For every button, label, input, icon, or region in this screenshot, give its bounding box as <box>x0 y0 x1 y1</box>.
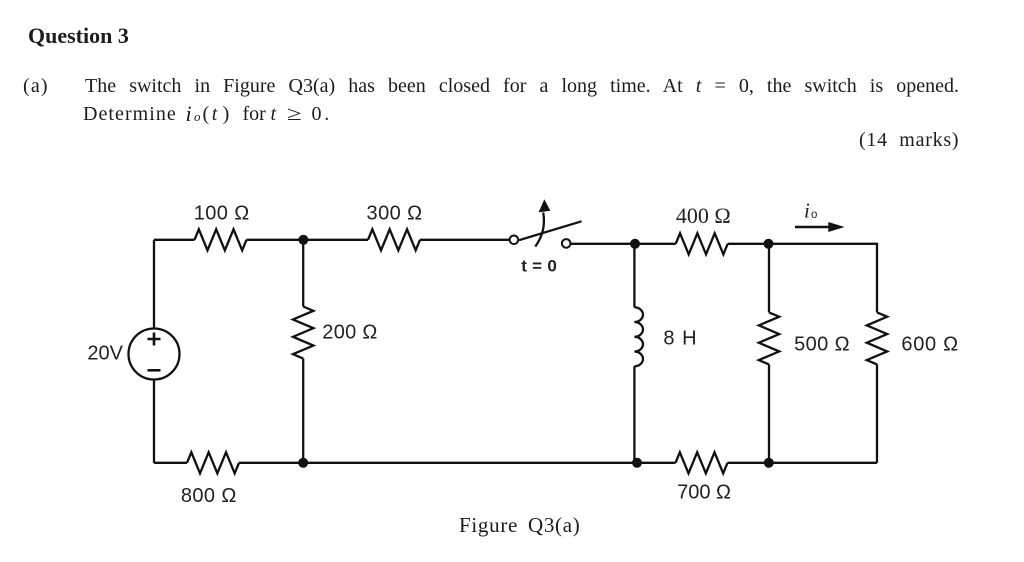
switch right contact circle <box>562 239 571 248</box>
bottom wire left segment from corner to 800-ohm <box>154 462 187 464</box>
svg-text:300 Ω: 300 Ω <box>367 203 423 225</box>
wire from source bottom to bottom-left corner <box>153 380 155 463</box>
paragraph line 2 <box>83 103 177 126</box>
switch blade <box>519 221 582 240</box>
source minus sign <box>148 369 161 372</box>
junction node B dot <box>630 239 640 249</box>
wire from switch right contact to node B <box>571 243 634 245</box>
wire inductor bottom to bottom wire <box>633 366 635 463</box>
wire node A down to 200-ohm <box>302 240 304 307</box>
junction node C dot <box>764 239 774 249</box>
voltage source V1 circle <box>129 329 180 380</box>
current arrowhead <box>828 222 844 232</box>
junction bottom node D dot <box>632 458 642 468</box>
resistor R3 400 ohm <box>676 233 728 254</box>
svg-text:500 Ω: 500 Ω <box>794 334 850 356</box>
resistor R4 200 ohm vertical <box>293 307 313 359</box>
svg-text:8 H: 8 H <box>663 327 696 349</box>
wire node C to top-right corner and down right branch <box>728 244 877 313</box>
wire top-left horizontal from source corner to 100-ohm <box>154 239 195 241</box>
figure caption Figure Q3(a) <box>459 513 580 538</box>
switch left contact circle <box>510 236 519 245</box>
svg-text:o: o <box>811 209 817 221</box>
bottom wire node D to 700-ohm <box>637 462 676 464</box>
svg-text:100 Ω: 100 Ω <box>194 202 250 224</box>
paragraph line 1 <box>85 75 959 98</box>
junction bottom node under 200-ohm dot <box>298 458 308 468</box>
svg-text:400 Ω: 400 Ω <box>676 203 731 228</box>
left branch wire from top corner down to source <box>153 240 155 329</box>
wire node B to 400-ohm <box>635 243 676 245</box>
resistor R1 100 ohm <box>195 229 247 250</box>
resistor R6 600 ohm vertical <box>867 312 887 364</box>
wire 600-ohm bottom to bottom-right corner <box>876 364 878 462</box>
wire from 300-ohm to switch left contact <box>420 239 510 241</box>
wire inductor branch top <box>633 244 635 307</box>
svg-text:i: i <box>804 198 810 222</box>
heading "Question 3" <box>28 23 129 49</box>
resistor R7 800 ohm <box>187 452 239 473</box>
wire 500-ohm bottom <box>768 364 770 462</box>
resistor R5 500 ohm vertical <box>759 312 779 364</box>
inductor L1 8H <box>634 307 643 366</box>
svg-text:800 Ω: 800 Ω <box>181 485 237 507</box>
junction node A dot <box>298 235 308 245</box>
svg-text:700 Ω: 700 Ω <box>677 481 731 503</box>
svg-text:t = 0: t = 0 <box>521 257 557 276</box>
source plus sign <box>148 333 161 346</box>
wire between 100-ohm and 300-ohm <box>247 239 369 241</box>
switch opening arc <box>535 213 544 247</box>
item label (a) <box>23 75 49 98</box>
resistor R8 700 ohm <box>676 452 728 473</box>
svg-text:20V: 20V <box>87 343 123 365</box>
svg-text:600 Ω: 600 Ω <box>901 334 958 356</box>
marks note (14 marks) <box>859 129 959 152</box>
current arrow i_o <box>795 226 829 228</box>
junction bottom node E dot <box>764 458 774 468</box>
svg-text:200 Ω: 200 Ω <box>322 322 377 344</box>
wire 500-ohm branch top <box>768 244 770 313</box>
switch arrowhead <box>539 199 551 212</box>
bottom wire from 800-ohm to bottom node D <box>239 462 634 464</box>
wire 200-ohm down to bottom node <box>302 359 304 463</box>
resistor R2 300 ohm <box>368 229 420 250</box>
bottom wire node E to bottom-right corner <box>728 462 878 464</box>
